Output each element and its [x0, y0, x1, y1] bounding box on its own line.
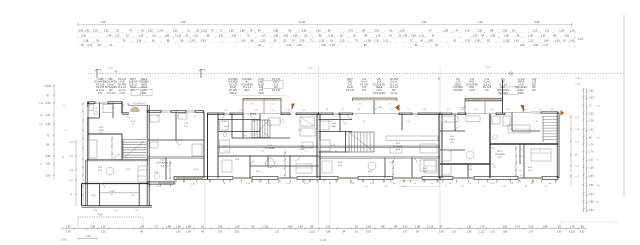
svg-text:1,115: 1,115 [45, 85, 52, 88]
svg-text:KOCHEN: KOCHEN [242, 79, 252, 81]
svg-text:2,55: 2,55 [235, 232, 240, 234]
svg-text:KS 2,65: KS 2,65 [346, 90, 355, 92]
svg-text:2,85: 2,85 [90, 224, 96, 228]
svg-text:1,09: 1,09 [570, 40, 575, 43]
svg-text:9,8 m2: 9,8 m2 [391, 82, 399, 84]
svg-text:1,38: 1,38 [478, 21, 483, 24]
svg-text:SCHLAFEN: SCHLAFEN [466, 83, 478, 86]
house2 bottom wall [148, 182, 174, 185]
unit5 top wall [440, 113, 505, 115]
svg-text:DIELE: DIELE [455, 84, 462, 86]
unit5 wardrobe top [466, 116, 480, 122]
svg-text:1,25: 1,25 [330, 44, 335, 47]
house1 door arc 2 [100, 183, 105, 188]
house1 interior wall h3 [82, 183, 149, 185]
svg-text:1,115: 1,115 [260, 40, 267, 43]
svg-text:1,51: 1,51 [467, 224, 473, 228]
unit3 furniture table [266, 159, 275, 168]
svg-text:SCHLAFEN: SCHLAFEN [105, 81, 117, 84]
svg-text:1,88: 1,88 [502, 232, 507, 234]
unit5 furniture kitchen [442, 116, 458, 175]
grid line axis A bottom connector [204, 180, 206, 231]
svg-text:1,67: 1,67 [66, 224, 72, 228]
svg-text:+0,00: +0,00 [258, 79, 264, 81]
house1 entry text [133, 103, 146, 105]
svg-text:3,50: 3,50 [428, 40, 433, 43]
svg-text:11,6 m2: 11,6 m2 [499, 84, 508, 86]
house2 interior wall h2 [148, 156, 204, 158]
unit5 bottom furniture [442, 150, 474, 161]
house2 below-wall dim text [156, 184, 196, 188]
svg-text:3,50: 3,50 [321, 44, 326, 47]
svg-text:ABST: ABST [141, 83, 148, 86]
svg-text:KS 2,65: KS 2,65 [96, 84, 105, 86]
unit3 interior v walls [243, 114, 290, 179]
svg-text:1,38: 1,38 [176, 224, 182, 228]
unit4 bath fixtures [320, 121, 330, 151]
svg-text:WC: WC [245, 82, 249, 84]
svg-text:2,01: 2,01 [326, 224, 332, 228]
house1 lower-left step wall [82, 184, 87, 206]
svg-text:1.03: 1.03 [348, 84, 353, 86]
svg-text:3,50: 3,50 [403, 224, 409, 228]
svg-text:3,50: 3,50 [580, 232, 585, 234]
svg-text:1,67: 1,67 [543, 44, 548, 47]
svg-text:+0,00: +0,00 [141, 90, 147, 92]
svg-text:1,06: 1,06 [86, 235, 91, 238]
svg-text:2,55: 2,55 [589, 185, 594, 187]
roof marker mid-right [509, 72, 512, 75]
unit3 extra partition [232, 114, 268, 167]
svg-text:SCHLAFEN: SCHLAFEN [515, 86, 527, 89]
top dimension chain row 4 [77, 44, 575, 47]
unit3 furniture wardrobe [300, 117, 315, 126]
left stray marks [62, 105, 68, 159]
svg-text:WOHNEN: WOHNEN [495, 154, 505, 156]
svg-text:2,85: 2,85 [491, 35, 496, 38]
bottom dotted line [78, 214, 143, 218]
svg-text:DIELE: DIELE [273, 82, 280, 84]
svg-text:4,2 m2: 4,2 m2 [119, 90, 127, 92]
svg-text:1,115: 1,115 [318, 40, 325, 43]
svg-text:1,32: 1,32 [419, 35, 424, 38]
grid connector mid [329, 180, 331, 231]
unit4 interior v walls [340, 114, 412, 178]
svg-text:5,15: 5,15 [578, 37, 584, 41]
unit4 canopy tick text [359, 104, 392, 106]
house1 furniture bed [103, 105, 113, 113]
unit5 right wall [556, 113, 558, 179]
svg-text:2,55: 2,55 [293, 35, 298, 38]
right top level labels [575, 78, 581, 86]
svg-text:1,38: 1,38 [475, 40, 480, 43]
svg-text:BAD: BAD [470, 86, 475, 89]
svg-text:4,56: 4,56 [422, 21, 427, 24]
svg-text:1,51: 1,51 [589, 130, 594, 132]
mid wall y146.5 units 3-4 [218, 146, 440, 147]
svg-text:11,6 m2: 11,6 m2 [483, 84, 492, 86]
drawing frame right border [623, 15, 625, 196]
unit5 bath fixtures [492, 116, 510, 139]
section marker S2 [199, 68, 206, 78]
unit4 inner dim text row [326, 109, 427, 111]
svg-text:2,63: 2,63 [316, 30, 321, 33]
house1 room labels [91, 121, 136, 197]
svg-text:1,09: 1,09 [589, 98, 594, 100]
svg-text:1,09: 1,09 [589, 120, 594, 122]
top dimension chain row 3 [77, 40, 575, 43]
svg-text:+1,38: +1,38 [575, 84, 581, 86]
unit3 canopy [243, 98, 281, 113]
unit4 big table lines [386, 136, 438, 141]
svg-text:1,115: 1,115 [479, 232, 485, 234]
svg-text:2,55: 2,55 [374, 30, 379, 33]
unit3 canopy tick text [251, 104, 275, 106]
roof overhang dashed line [88, 73, 622, 75]
svg-text:WC: WC [532, 90, 536, 92]
svg-text:+0,00: +0,00 [469, 90, 475, 92]
svg-text:KS 2,65: KS 2,65 [360, 84, 369, 86]
svg-text:1,43: 1,43 [158, 30, 163, 33]
svg-text:1,88: 1,88 [326, 232, 331, 234]
svg-text:DIELE: DIELE [376, 87, 383, 89]
svg-text:2,10: 2,10 [528, 224, 534, 228]
svg-text:2,85: 2,85 [46, 155, 51, 158]
svg-text:SCHLAFEN: SCHLAFEN [373, 83, 385, 86]
svg-text:WC: WC [109, 79, 113, 81]
svg-text:1,115: 1,115 [569, 232, 575, 234]
svg-text:ABST: ABST [347, 78, 354, 81]
svg-text:KS 2,65: KS 2,65 [483, 87, 492, 89]
house1 door arc 1 [115, 155, 121, 161]
svg-text:1.04: 1.04 [377, 82, 382, 84]
svg-text:1,76: 1,76 [570, 224, 576, 228]
house1 below-extension dims [93, 210, 139, 212]
svg-text:KIND: KIND [518, 93, 524, 95]
svg-text:11,38: 11,38 [299, 21, 306, 24]
svg-text:+2,88: +2,88 [575, 78, 581, 80]
svg-text:15,2 m2: 15,2 m2 [118, 87, 127, 89]
svg-text:2,63: 2,63 [366, 224, 372, 228]
unit5 canopy line [465, 80, 503, 114]
svg-text:S: S [100, 68, 102, 72]
svg-text:1,67: 1,67 [529, 232, 534, 234]
svg-text:1,32: 1,32 [275, 232, 280, 234]
svg-text:2,63: 2,63 [218, 232, 223, 234]
svg-text:11,6 m2: 11,6 m2 [96, 90, 105, 92]
unit3 door arcs [243, 114, 300, 167]
svg-text:1,25: 1,25 [139, 35, 144, 38]
svg-text:1,115: 1,115 [175, 35, 182, 38]
svg-text:3,50: 3,50 [283, 35, 288, 38]
svg-text:2,85: 2,85 [533, 44, 538, 47]
svg-text:1,115: 1,115 [309, 232, 315, 234]
svg-text:1,76: 1,76 [87, 44, 92, 47]
svg-text:2,63: 2,63 [201, 40, 206, 43]
svg-text:SCHLAFEN: SCHLAFEN [241, 83, 253, 86]
svg-text:2,63: 2,63 [81, 35, 86, 38]
svg-text:11,6 m2: 11,6 m2 [390, 87, 399, 89]
grid line axis B [318, 66, 320, 231]
svg-text:2,55: 2,55 [229, 30, 234, 33]
svg-text:1,115: 1,115 [201, 30, 208, 33]
svg-text:1,88: 1,88 [240, 30, 245, 33]
svg-text:+4,56: +4,56 [307, 68, 313, 70]
svg-text:FLUR: FLUR [258, 84, 264, 86]
house2 door arcs [166, 140, 181, 167]
unit3 left wall [217, 114, 219, 179]
svg-text:1.04: 1.04 [501, 87, 506, 89]
unit3 bottom wall [208, 176, 321, 179]
unit3 party wall right pair [317, 114, 320, 178]
svg-text:1.04: 1.04 [362, 79, 367, 81]
svg-text:SCHLAFEN: SCHLAFEN [105, 86, 117, 89]
svg-text:1,51: 1,51 [173, 30, 178, 33]
unit3 entry door wedge [292, 104, 296, 111]
below-wall dimension ticks [150, 180, 557, 187]
unit5 interior walls [440, 113, 558, 179]
svg-text:SCHLAFEN: SCHLAFEN [373, 92, 385, 95]
unit5 entry door wedge [521, 105, 525, 113]
svg-text:KS 2,65: KS 2,65 [272, 79, 281, 81]
svg-text:DIELE: DIELE [518, 82, 525, 84]
svg-text:OK FFB: OK FFB [229, 90, 238, 92]
svg-text:SCHLAFEN: SCHLAFEN [497, 89, 509, 92]
svg-text:FLUR: FLUR [230, 87, 236, 89]
svg-text:1.03: 1.03 [259, 90, 264, 92]
svg-text:1,09: 1,09 [190, 40, 195, 43]
svg-text:+4,56: +4,56 [485, 67, 491, 69]
svg-text:1.04: 1.04 [470, 79, 475, 81]
unit3 bath fixtures [220, 121, 230, 153]
house1 top wall [88, 102, 122, 104]
svg-text:4,56: 4,56 [98, 214, 103, 217]
svg-text:WOHNEN: WOHNEN [265, 148, 275, 150]
svg-text:1,25: 1,25 [383, 40, 388, 43]
svg-text:2,38: 2,38 [477, 30, 482, 33]
svg-text:1,43: 1,43 [473, 35, 478, 38]
svg-text:OK FFB: OK FFB [118, 84, 127, 86]
svg-text:3,50: 3,50 [46, 102, 51, 105]
svg-text:1,25: 1,25 [115, 35, 120, 38]
svg-text:KOCHEN: KOCHEN [453, 87, 463, 89]
svg-text:KS 2,65: KS 2,65 [272, 90, 281, 92]
svg-text:1,88: 1,88 [543, 224, 549, 228]
svg-text:SCHLAFEN: SCHLAFEN [156, 162, 168, 165]
svg-text:1.03: 1.03 [362, 90, 367, 92]
svg-text:1.04: 1.04 [532, 79, 537, 81]
svg-text:KIND: KIND [258, 93, 264, 95]
svg-text:1,09: 1,09 [559, 30, 564, 33]
house2 interior wall h1 [148, 139, 204, 141]
unit4 terrace outline below [400, 181, 440, 187]
svg-text:9,8 m2: 9,8 m2 [108, 84, 116, 86]
svg-text:2,55: 2,55 [302, 30, 307, 33]
house1 left wall [87, 102, 89, 160]
svg-text:2,55: 2,55 [502, 30, 507, 33]
unit4 interior h walls [319, 120, 441, 159]
unit3 dining set [264, 118, 283, 125]
house1 extension shelf line [100, 192, 140, 194]
svg-text:1,25: 1,25 [532, 30, 537, 33]
svg-text:KIND: KIND [98, 130, 104, 132]
svg-text:1,115: 1,115 [262, 224, 269, 228]
svg-text:2,01: 2,01 [541, 35, 546, 38]
house1 furniture wardrobe [89, 140, 97, 158]
house2 window dim text [157, 116, 197, 118]
svg-text:1,67: 1,67 [403, 232, 408, 234]
unit5 room labels [449, 107, 533, 172]
roofline level labels [107, 67, 491, 70]
svg-text:⊕: ⊕ [438, 77, 441, 81]
svg-text:1,76: 1,76 [376, 35, 381, 38]
svg-text:4,2 m2: 4,2 m2 [518, 79, 526, 81]
house2 partition v2 [165, 158, 167, 181]
svg-text:1,43: 1,43 [298, 224, 304, 228]
roofline note text [100, 79, 112, 81]
house1 entry step wall [122, 102, 129, 114]
svg-text:2,38: 2,38 [66, 232, 71, 234]
room schedule block unit2 [228, 79, 281, 95]
svg-text:WC: WC [501, 82, 505, 84]
unit5 extra partitions [468, 144, 524, 178]
unit4 furniture bed [420, 160, 436, 171]
house1 bath fixtures [89, 105, 98, 116]
svg-text:1,38: 1,38 [467, 232, 472, 234]
svg-text:1,09: 1,09 [400, 30, 405, 33]
svg-text:BAD: BAD [332, 125, 337, 128]
svg-text:+0,00: +0,00 [376, 90, 382, 92]
svg-text:1,06: 1,06 [101, 21, 106, 24]
svg-text:1,43: 1,43 [176, 232, 181, 234]
svg-text:1,43: 1,43 [286, 44, 291, 47]
svg-text:1,115: 1,115 [68, 142, 74, 144]
house1 partition v0 [88, 103, 100, 118]
house1 partition v2 [121, 134, 123, 160]
svg-text:2,10: 2,10 [328, 35, 333, 38]
svg-text:OK FFB: OK FFB [390, 79, 399, 81]
svg-text:KIND: KIND [449, 139, 455, 141]
svg-text:2,01: 2,01 [219, 35, 224, 38]
bottom secondary line left [61, 235, 98, 241]
svg-text:KIND: KIND [258, 82, 264, 84]
svg-text:1.02 DIELE 4,2: 1.02 DIELE 4,2 [133, 103, 146, 105]
unit4 below-wall dim text [329, 183, 434, 185]
unit4 staircase spiral [349, 132, 374, 152]
svg-text:ABST: ABST [130, 78, 137, 81]
unit3 interior h walls [218, 120, 319, 167]
svg-text:1,67: 1,67 [139, 224, 145, 228]
svg-text:1.04: 1.04 [98, 93, 103, 95]
unit3 below-wall dim text [224, 183, 309, 185]
schedule legend boxes [131, 81, 518, 96]
unit4 bottom wall [320, 176, 440, 179]
unit5 furniture bed [531, 149, 551, 161]
svg-text:1,38: 1,38 [465, 30, 470, 33]
house2 room labels [154, 123, 199, 174]
svg-text:1,76: 1,76 [589, 151, 594, 153]
house1 furniture kitchen [138, 166, 147, 182]
svg-text:1,88: 1,88 [443, 30, 448, 33]
svg-text:15,2 m2: 15,2 m2 [129, 82, 138, 84]
svg-text:KOCHEN: KOCHEN [228, 82, 238, 84]
bottom connector verticals [78, 217, 143, 229]
room schedule block unit3 [346, 78, 399, 95]
svg-text:WC: WC [131, 90, 135, 92]
svg-text:2,01: 2,01 [297, 44, 302, 47]
svg-text:WC: WC [501, 79, 505, 81]
svg-text:+4,56: +4,56 [107, 68, 113, 70]
svg-text:1,67: 1,67 [261, 35, 266, 38]
unit3 staircase [252, 120, 270, 138]
svg-text:KS 2,65: KS 2,65 [96, 87, 105, 89]
svg-text:1,76: 1,76 [465, 40, 470, 43]
svg-text:11,6 m2: 11,6 m2 [129, 84, 138, 86]
svg-text:+0,00: +0,00 [97, 79, 103, 81]
house1 partition v3 [99, 184, 101, 206]
svg-text:±0,00: ±0,00 [61, 240, 67, 242]
interior dim chain unit3 [284, 150, 286, 177]
unit3 bottom furniture [222, 160, 312, 173]
svg-text:WC: WC [532, 87, 536, 89]
svg-text:2,38: 2,38 [148, 30, 153, 33]
svg-text:5,80: 5,80 [535, 21, 540, 24]
svg-text:1,09: 1,09 [186, 232, 191, 234]
left dim chain outer [39, 84, 55, 180]
svg-text:2,01: 2,01 [101, 232, 106, 234]
svg-text:2,63: 2,63 [288, 224, 294, 228]
house1 interior wall h1 [88, 133, 122, 135]
svg-text:KS 2,65: KS 2,65 [118, 79, 127, 81]
room schedule block unit5 [515, 79, 537, 95]
left dim chain inner [68, 140, 77, 206]
interior dim chain house2 [169, 160, 171, 181]
svg-text:1,38: 1,38 [136, 40, 141, 43]
unit5 inner dim text row [447, 109, 554, 111]
svg-text:2,01: 2,01 [490, 232, 495, 234]
top dimension chain row 2 [77, 35, 575, 38]
grid line axis C [439, 66, 441, 231]
unit3 top wall [208, 113, 319, 115]
svg-text:3,50: 3,50 [502, 224, 508, 228]
unit5 door arcs [456, 127, 496, 169]
svg-text:1,38: 1,38 [415, 224, 421, 228]
svg-text:1,88: 1,88 [166, 224, 172, 228]
svg-text:1,25: 1,25 [93, 30, 98, 33]
section marker S1 [95, 68, 102, 78]
svg-text:BAD: BAD [348, 81, 353, 84]
svg-text:2,85: 2,85 [217, 224, 223, 228]
svg-text:1,43: 1,43 [514, 40, 519, 43]
svg-text:1,43: 1,43 [544, 40, 549, 43]
svg-text:1,115: 1,115 [427, 224, 434, 228]
unit4 entry partition [401, 114, 403, 130]
svg-text:DIELE: DIELE [230, 93, 237, 95]
svg-text:⊕: ⊕ [115, 70, 118, 74]
house1 bottom wall [82, 205, 153, 207]
interior dim chain house1 [111, 136, 113, 159]
svg-text:1,43: 1,43 [85, 30, 90, 33]
svg-text:1,32: 1,32 [589, 160, 594, 162]
svg-text:1,32: 1,32 [104, 30, 109, 33]
right dim inner chain [570, 115, 580, 186]
unit3 sofa [300, 128, 315, 148]
svg-text:+0,00: +0,00 [119, 93, 125, 95]
inner dim text row y121 [222, 121, 539, 123]
svg-text:2,55: 2,55 [273, 35, 278, 38]
house1 interior wall h2 [87, 158, 149, 160]
unit4 entry door wedge [395, 104, 400, 111]
